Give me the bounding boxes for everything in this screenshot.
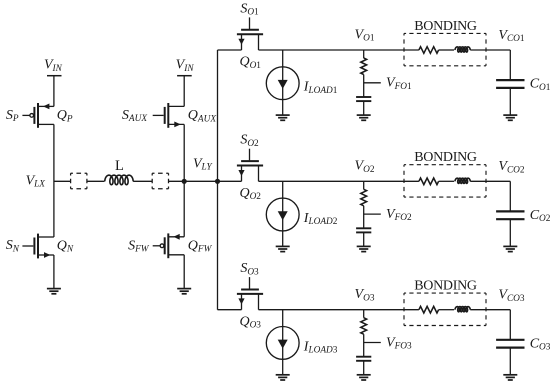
wire: VCO2 down to capacitor: [509, 181, 511, 211]
wire: inductor to VCO2 node: [470, 180, 510, 182]
feedback capacitor (branch 1): [356, 97, 371, 101]
junction dot (VLY / output bus): [215, 179, 220, 184]
svg-text:CO3: CO3: [530, 336, 550, 352]
wire: inductor to right dashed box: [133, 180, 152, 182]
svg-text:QP: QP: [57, 108, 73, 124]
bond-wire resistor (branch 3): [419, 306, 439, 313]
feedback resistor (branch 3): [361, 318, 367, 335]
svg-text:VO2: VO2: [355, 159, 375, 175]
BONDING dashed box (branch 1): [404, 33, 486, 65]
svg-text:VO3: VO3: [355, 287, 375, 303]
ground (ILOAD1): [276, 115, 290, 120]
svg-text:SO3: SO3: [240, 261, 259, 277]
wire: bus to QO1: [218, 49, 242, 51]
wire: QO1 to VO1 node: [259, 49, 419, 51]
wire: VIN rail bar (middle): [177, 75, 192, 77]
ground (ILOAD2): [276, 246, 290, 251]
svg-text:VLX: VLX: [26, 173, 46, 189]
svg-text:VIN: VIN: [44, 58, 63, 74]
transistor QN (NMOS): [22, 234, 54, 259]
svg-text:SP: SP: [6, 108, 19, 124]
ground (feedback, branch 3): [357, 375, 371, 380]
bond-wire resistor (branch 2): [419, 178, 439, 185]
svg-text:VFO2: VFO2: [386, 207, 412, 223]
feedback capacitor (branch 2): [356, 228, 371, 232]
output capacitor CO3: [496, 340, 524, 348]
svg-text:BONDING: BONDING: [414, 279, 477, 294]
transistor QO1 (NMOS switch): [237, 17, 263, 50]
svg-text:ILOAD3: ILOAD3: [303, 339, 338, 355]
wire: VIN to QP drain: [53, 76, 55, 107]
wire: VCO3 down to capacitor: [509, 310, 511, 340]
svg-text:QFW: QFW: [188, 238, 213, 254]
wire: capacitor to ground (branch 2): [363, 232, 365, 246]
svg-text:SFW: SFW: [128, 238, 150, 254]
svg-text:QO3: QO3: [239, 314, 261, 330]
wire: CO1 to ground: [509, 88, 511, 115]
bond-wire inductor (branch 1): [455, 47, 470, 52]
bond-wire inductor (branch 2): [455, 178, 470, 183]
ground (feedback, branch 1): [357, 115, 371, 120]
wire: QO2 to VO2 node: [259, 180, 419, 182]
svg-text:CO1: CO1: [530, 77, 550, 93]
ground (ILOAD3): [276, 375, 290, 380]
transistor QFW (PMOS): [153, 233, 185, 258]
svg-text:CO2: CO2: [530, 208, 550, 224]
BONDING dashed box (branch 2): [404, 165, 486, 197]
wire: resistor to bond inductor (branch 2): [439, 180, 455, 182]
ground (CO1): [503, 115, 517, 120]
wire: QN source to ground: [53, 255, 55, 289]
svg-text:L: L: [115, 158, 124, 174]
wire: resistor to bond inductor (branch 1): [439, 49, 455, 51]
svg-text:QO2: QO2: [239, 186, 261, 202]
current source ILOAD3: [266, 310, 299, 375]
feedback resistor (branch 1): [361, 58, 367, 75]
svg-text:SO1: SO1: [240, 1, 259, 17]
svg-text:ILOAD1: ILOAD1: [303, 80, 338, 96]
wire: VLX to dashed pad box: [54, 180, 71, 182]
svg-text:BONDING: BONDING: [414, 150, 477, 165]
output capacitor CO2: [496, 211, 524, 219]
svg-text:QN: QN: [57, 238, 74, 254]
inductor L: [105, 175, 133, 185]
ground (CO2): [503, 246, 517, 251]
wire: QFW source to ground: [183, 255, 185, 289]
svg-text:SN: SN: [6, 238, 20, 254]
wire: VCO1 down to capacitor: [509, 50, 511, 80]
feedback resistor (branch 2): [361, 189, 367, 206]
node VFO2 stub: [364, 213, 381, 215]
svg-text:QAUX: QAUX: [188, 108, 217, 124]
wire: VO3 down to resistor and VFO3 node: [363, 310, 365, 318]
ground (CO3): [503, 375, 517, 380]
svg-text:VCO2: VCO2: [498, 159, 524, 175]
wire: VO1 down to resistor and VFO1 node: [363, 50, 365, 58]
node VFO1 stub: [364, 82, 381, 84]
wire: bus to QO2: [218, 180, 242, 182]
wire: bus to QO3: [218, 309, 242, 311]
svg-text:SAUX: SAUX: [122, 108, 147, 124]
wire: resistor to bond inductor (branch 3): [439, 309, 455, 311]
current source ILOAD2: [266, 181, 299, 246]
wire: inductor to VCO1 node: [470, 49, 510, 51]
current source ILOAD1: [266, 50, 299, 115]
svg-text:VFO3: VFO3: [386, 335, 412, 351]
svg-text:VLY: VLY: [193, 156, 213, 172]
bond-wire inductor (branch 3): [455, 307, 470, 312]
svg-text:VCO3: VCO3: [498, 288, 524, 304]
svg-text:BONDING: BONDING: [414, 19, 477, 34]
wire: capacitor to ground (branch 3): [363, 361, 365, 375]
svg-text:QO1: QO1: [239, 55, 261, 71]
transistor QO2 (NMOS switch): [237, 149, 263, 182]
wire: VIN to QAUX drain: [183, 76, 185, 107]
wire: inductor to VCO3 node: [470, 309, 510, 311]
svg-text:SO2: SO2: [240, 133, 259, 149]
svg-text:VO1: VO1: [355, 27, 375, 43]
ground (QFW): [177, 289, 191, 294]
svg-text:VFO1: VFO1: [386, 76, 412, 92]
wire: QO3 to VO3 node: [259, 309, 419, 311]
wire: box to inductor L: [87, 180, 105, 182]
wire: capacitor to ground (branch 1): [363, 101, 365, 115]
bond-wire resistor (branch 1): [419, 47, 439, 54]
svg-text:VIN: VIN: [176, 58, 195, 74]
svg-text:ILOAD2: ILOAD2: [303, 211, 338, 227]
ground (QN): [47, 289, 61, 294]
transistor QP (PMOS): [22, 103, 54, 128]
wire: CO2 to ground: [509, 219, 511, 246]
node VFO3 stub: [364, 342, 381, 344]
svg-text:VCO1: VCO1: [498, 28, 524, 44]
wire: box to VLY junction and on to bus: [169, 180, 218, 182]
ground (feedback, branch 2): [357, 246, 371, 251]
wire: CO3 to ground: [509, 348, 511, 375]
transistor QO3 (NMOS switch): [237, 277, 263, 310]
junction dot (VLY / QAUX column): [182, 179, 187, 184]
transistor QAUX (NMOS): [153, 103, 185, 128]
feedback capacitor (branch 3): [356, 357, 371, 361]
output capacitor CO1: [496, 80, 524, 88]
pad/bond dashed box (left of L): [71, 173, 87, 189]
wire: QP source down through VLX to QN drain: [53, 124, 55, 237]
pad/bond dashed box (right of L): [152, 173, 168, 189]
wire: VIN rail bar (left): [47, 75, 62, 77]
BONDING dashed box (branch 3): [404, 293, 486, 325]
wire: VO2 down to resistor and VFO2 node: [363, 181, 365, 189]
wire: output bus: [217, 50, 219, 310]
wire: QAUX source down to VLY and QFW drain: [183, 124, 185, 236]
